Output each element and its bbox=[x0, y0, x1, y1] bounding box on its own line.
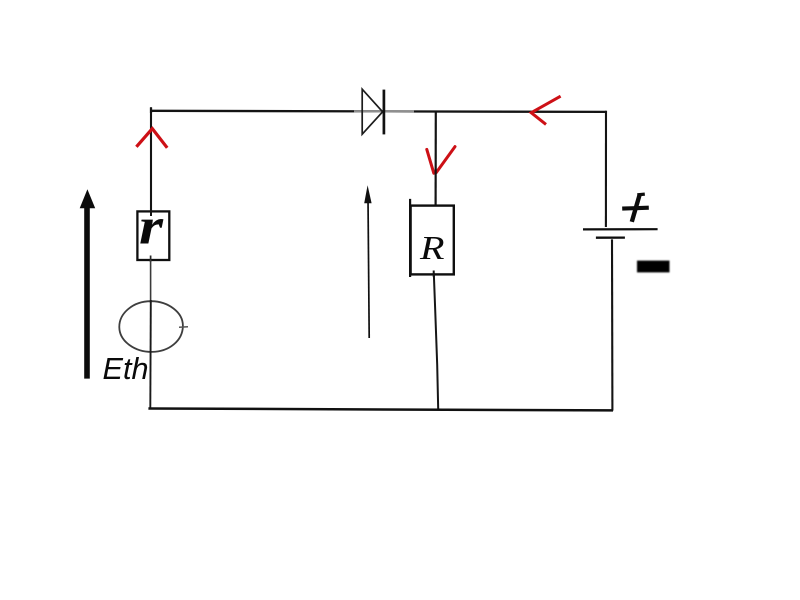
EMF direction arrow (thick, far left) bbox=[80, 189, 96, 378]
resistor r top pin stub bbox=[150, 210, 152, 216]
resistor r box bbox=[137, 211, 169, 260]
voltage source Eth circle bbox=[119, 301, 183, 352]
wire grey segment through diode bbox=[354, 110, 414, 112]
resistor R bottom pin stub bbox=[433, 271, 435, 278]
wire left vertical (top corner to resistor r) bbox=[150, 108, 152, 212]
resistor R box bbox=[411, 206, 454, 275]
wire right vertical upper (corner to battery +) bbox=[605, 111, 607, 227]
wire top horizontal bbox=[150, 111, 606, 112]
red current arrow (up chevron) on left branch bbox=[136, 129, 167, 148]
voltage source right tick bbox=[179, 326, 188, 328]
battery - label (thick bar) bbox=[637, 261, 670, 273]
wire top-left corner stub bbox=[150, 107, 152, 113]
battery + label (hand-drawn slanted plus) bbox=[622, 194, 649, 222]
resistor R left edge overshoot bbox=[409, 199, 411, 277]
resistor r bottom pin stub bbox=[150, 256, 152, 263]
diode D1 triangle (anode) bbox=[362, 89, 382, 134]
battery negative plate (short) bbox=[596, 236, 625, 238]
diode D1 cathode bar bbox=[383, 90, 386, 135]
wire middle vertical (top wire to resistor R) bbox=[435, 111, 437, 207]
wire through source down to bottom-left corner bbox=[149, 300, 152, 410]
voltage direction arrow (thin, middle) bbox=[364, 185, 371, 338]
red current arrow (down V) on middle branch bbox=[427, 147, 455, 174]
battery positive plate (long) bbox=[583, 228, 658, 230]
wire from r to source circle bbox=[150, 260, 152, 303]
wire from R down to bottom wire (slight slant) bbox=[434, 273, 438, 410]
svg-text:R: R bbox=[419, 230, 445, 267]
svg-text:r: r bbox=[139, 199, 164, 256]
svg-text:Eth: Eth bbox=[103, 352, 149, 386]
red current arrow (left chevron) on top-right wire bbox=[531, 96, 560, 124]
wire right vertical lower (battery - to bottom corner) bbox=[611, 239, 614, 410]
wire bottom horizontal bbox=[148, 409, 613, 411]
